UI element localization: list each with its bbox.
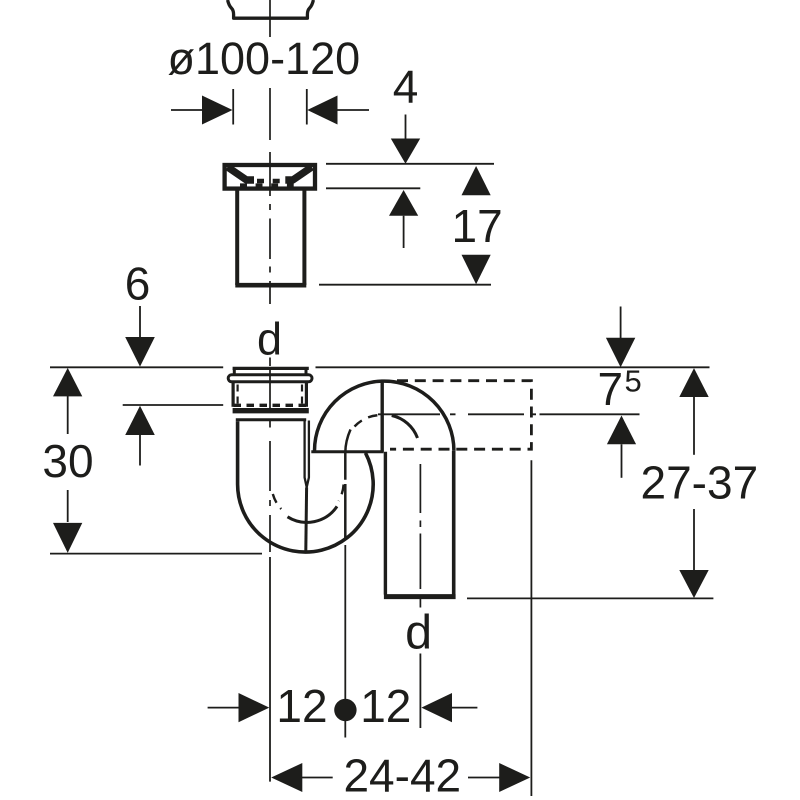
bottom reference line right [467,597,713,599]
wall line right [316,366,710,368]
dimension 7.5 up arrow [607,416,636,445]
wall line left [50,366,223,368]
dimension 7.5 down arrow [620,307,622,340]
socket hidden pipe left [237,385,239,405]
dimension ø100-120 left arrow [171,109,203,111]
joint chord line [311,450,383,453]
svg-text:27-37: 27-37 [641,456,759,508]
centerline dash above socket [269,358,271,367]
trap inlet left wall and U outer arc [238,421,374,552]
socket wall right [305,383,308,407]
svg-text:5: 5 [625,364,642,399]
extension line top (flange top) [326,163,494,165]
socket bead ring [228,375,312,382]
dimension 17 down arrow [462,255,491,285]
extension line socket depth [123,404,224,406]
outlet vertical centerline dash-dot [419,464,421,608]
dimension 30 up arrow [53,368,82,397]
svg-text:7: 7 [598,363,624,415]
socket top edge [233,367,309,370]
center dot between 12 and 12 [334,699,356,721]
dimension 17 up arrow [462,166,491,195]
tick left [232,89,234,125]
flange funnel right [285,167,312,180]
internal wall curve of upper bend [345,430,350,541]
outlet right wall [452,451,456,595]
outlet bottom edge [384,594,456,599]
outlet left wall [382,381,385,594]
svg-text:d: d [257,314,282,365]
flange hidden dashes row 1 [257,179,280,183]
inner U arc solid [288,506,338,522]
floor drain cup outline (cut at top) [228,0,314,18]
inner U arc hidden right [339,485,344,501]
extension line from dashed outlet [530,460,532,796]
extension line 7.5 bottom [540,413,640,415]
socket top side stubs [233,368,236,374]
dimension 24-42 left arrow [271,763,302,792]
dimension 27-37 up arrow [679,368,708,397]
svg-text:ø100-120: ø100-120 [168,33,361,84]
dimension 12 left arrow [208,707,239,709]
svg-text:6: 6 [125,258,151,310]
centerline top [269,0,271,37]
svg-text:30: 30 [42,435,93,487]
dimension 6 up arrow [125,406,155,435]
socket wall left [232,383,235,407]
dimension 4 up arrow [389,190,418,216]
flange hidden dashes row 2 [240,183,294,187]
tick right [306,89,308,125]
extension line pipe bottom [319,284,491,286]
centerline dash [269,88,271,140]
internal partition below notch [304,488,308,552]
inlet pipe tail with V notch [305,421,309,488]
flange pipe left wall [235,190,239,285]
dimension 24-42 right arrow [499,763,530,792]
svg-text:d: d [405,606,432,660]
inlet centerline extension below trap [269,557,271,782]
dashed alternative outlet rectangle [390,381,531,450]
flange body [225,165,315,189]
dimension 30 down arrow [67,490,69,522]
mid extension line [344,545,346,738]
centerline through trap inlet [269,368,271,552]
flange pipe bottom edge [235,283,306,288]
svg-text:12: 12 [276,680,327,732]
dimension 4 down arrow [405,115,407,140]
svg-text:24-42: 24-42 [343,750,461,800]
svg-text:12: 12 [360,680,411,732]
dimension 6 down arrow [139,306,141,338]
dimension 12 right arrow [421,693,452,722]
socket ring line [236,418,306,421]
dimension 27-37 down arrow [693,509,695,571]
inner upper bend arc hidden [355,415,379,426]
flange pipe right wall [302,190,306,285]
centerline through flange pipe [269,152,271,304]
inner upper bend arc solid [392,416,418,439]
flange funnel left [228,167,255,180]
outlet horizontal centerline dash-dot [378,413,536,415]
socket lower band [233,408,309,413]
svg-text:17: 17 [452,200,503,252]
extension line flange bottom [326,187,420,189]
socket hidden pipe right [301,385,303,405]
bottom reference line left [50,553,262,555]
outlet centerline below d [419,654,421,729]
inner U arc hidden left [273,494,281,509]
dimension ø100-120 right arrow [307,96,337,125]
socket grip teeth [234,404,309,407]
upper bend outer semicircle [315,381,454,451]
svg-text:4: 4 [393,61,419,113]
